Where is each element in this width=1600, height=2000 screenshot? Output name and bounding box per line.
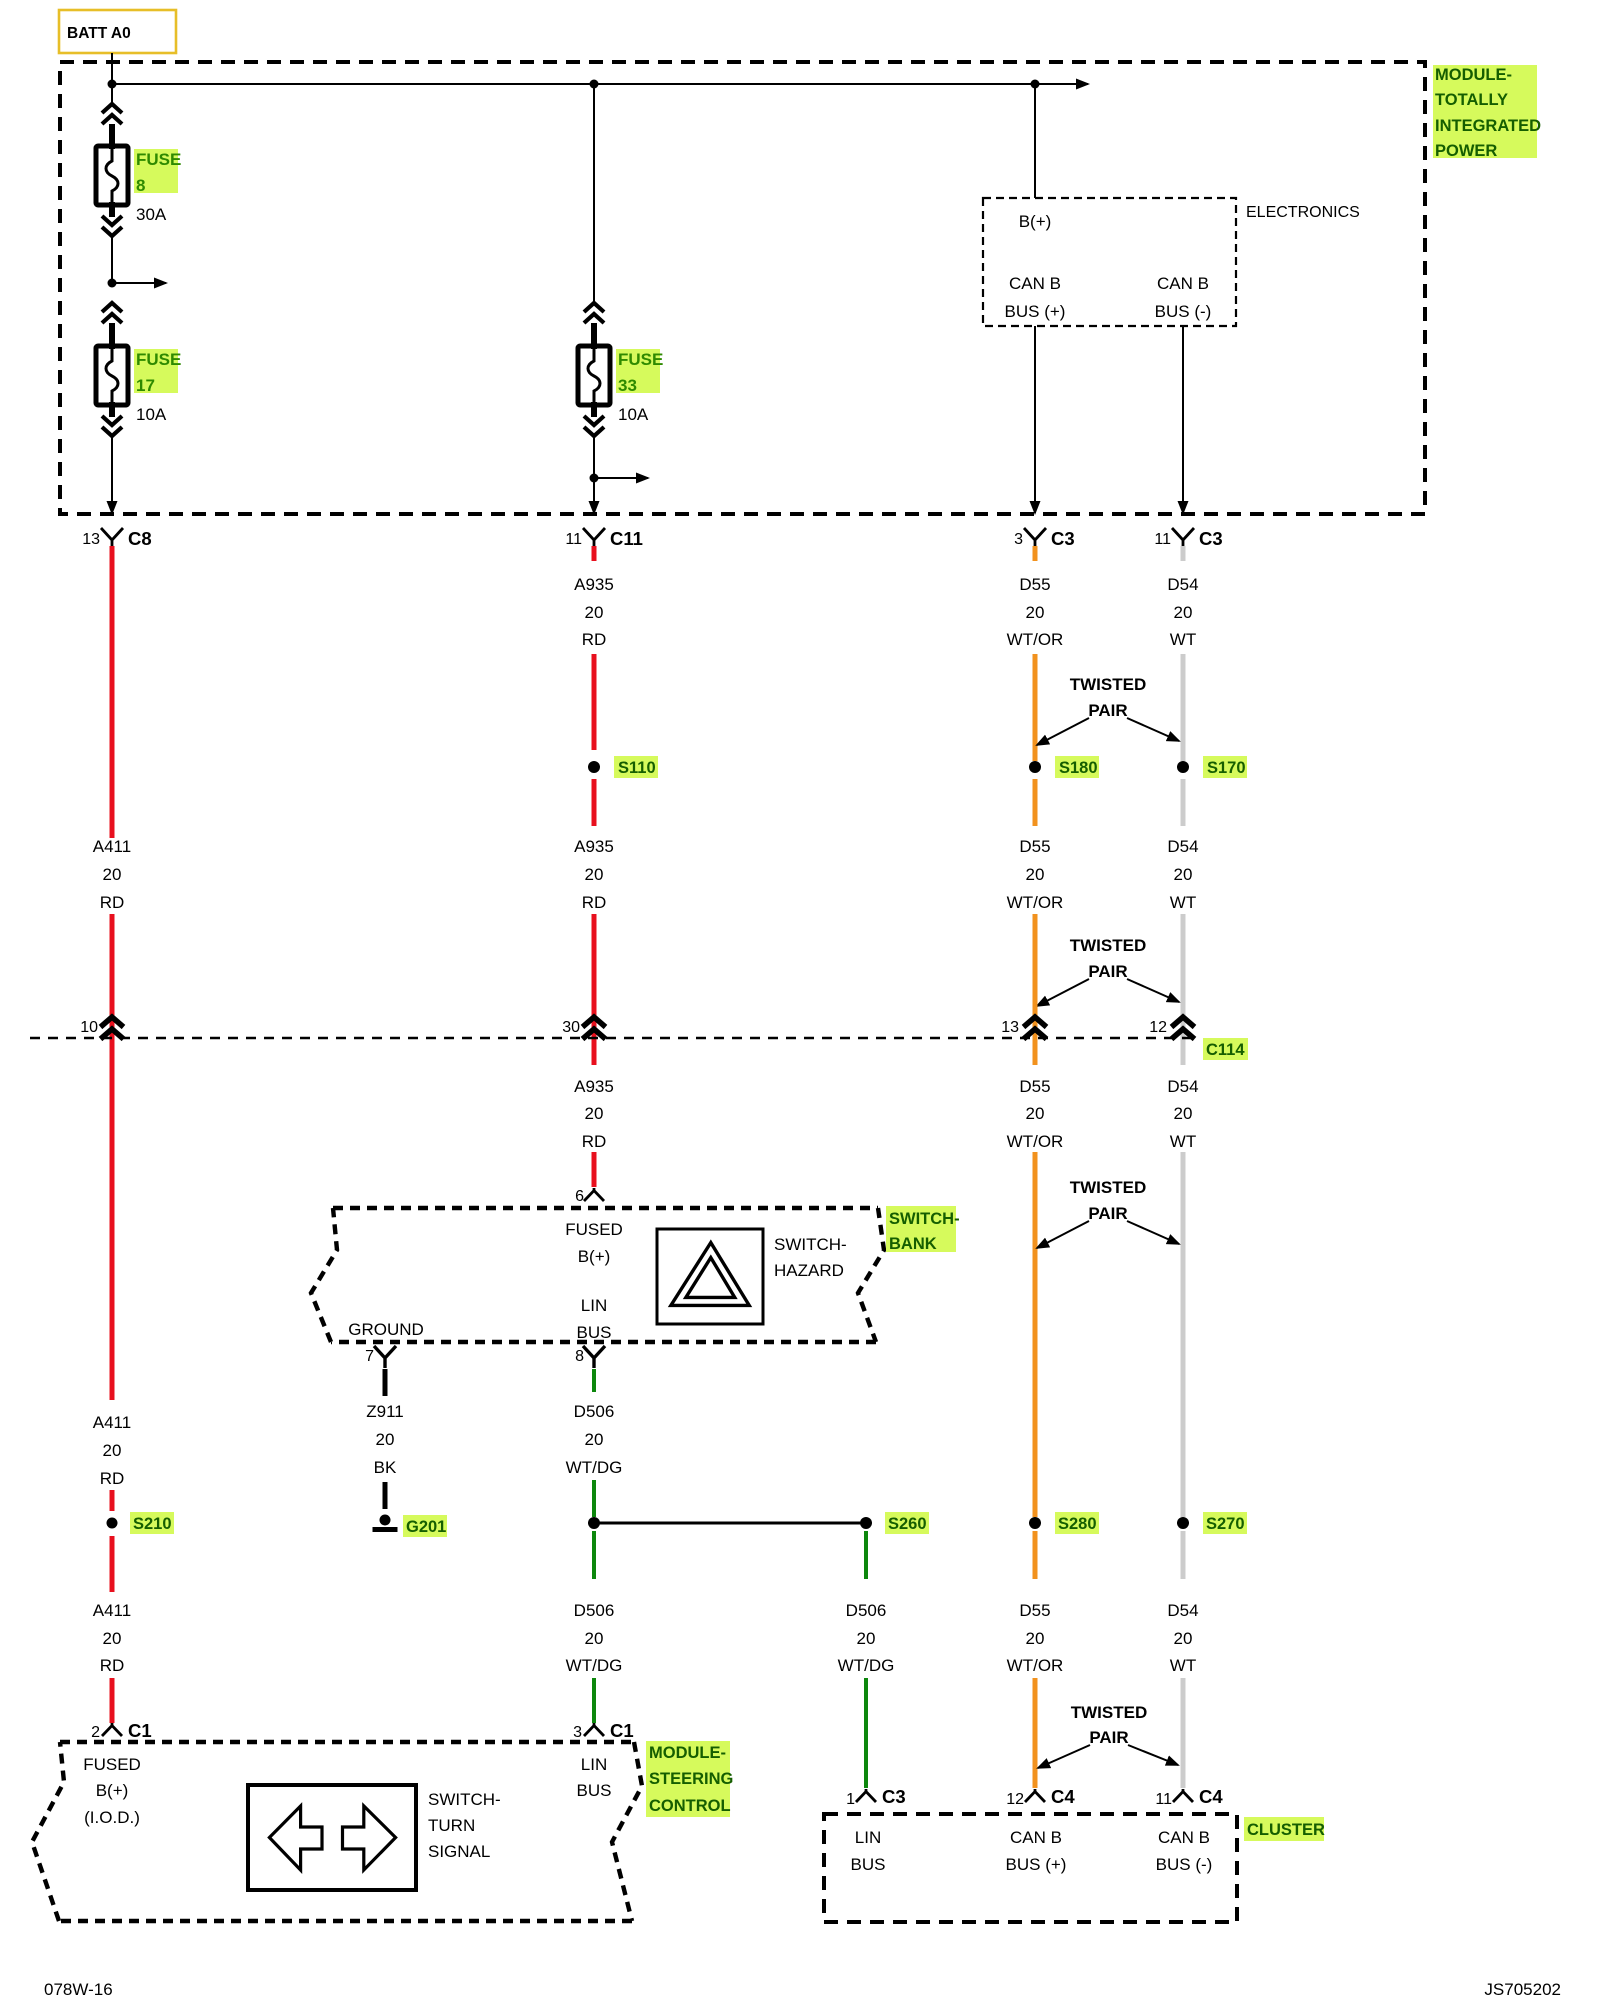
svg-text:C11: C11: [610, 528, 643, 549]
svg-text:13: 13: [82, 531, 100, 548]
svg-text:2: 2: [91, 1724, 100, 1741]
svg-text:D506: D506: [846, 1601, 887, 1620]
svg-text:WT/OR: WT/OR: [1007, 893, 1064, 912]
svg-text:TURN: TURN: [428, 1816, 475, 1835]
svg-text:PAIR: PAIR: [1089, 1728, 1128, 1747]
svg-text:A935: A935: [574, 1077, 614, 1096]
svg-text:D54: D54: [1167, 575, 1198, 594]
svg-text:TWISTED: TWISTED: [1070, 1178, 1147, 1197]
svg-text:CLUSTER: CLUSTER: [1247, 1821, 1325, 1839]
svg-text:D54: D54: [1167, 1601, 1198, 1620]
svg-text:BUS (-): BUS (-): [1155, 302, 1212, 321]
svg-text:C114: C114: [1206, 1041, 1245, 1059]
svg-text:33: 33: [618, 376, 637, 395]
svg-text:WT: WT: [1170, 893, 1196, 912]
svg-text:WT/DG: WT/DG: [838, 1656, 895, 1675]
svg-text:FUSE: FUSE: [618, 350, 663, 369]
svg-text:WT: WT: [1170, 630, 1196, 649]
svg-text:WT/DG: WT/DG: [566, 1656, 623, 1675]
svg-text:10A: 10A: [618, 405, 649, 424]
svg-text:BUS: BUS: [851, 1855, 886, 1874]
svg-text:8: 8: [136, 176, 145, 195]
svg-text:RD: RD: [582, 630, 607, 649]
svg-text:CAN B: CAN B: [1010, 1828, 1062, 1847]
svg-text:20: 20: [103, 865, 122, 884]
svg-text:GROUND: GROUND: [348, 1320, 424, 1339]
svg-text:A411: A411: [93, 1413, 131, 1432]
svg-text:LIN: LIN: [581, 1296, 607, 1315]
svg-text:WT: WT: [1170, 1132, 1196, 1151]
svg-text:C4: C4: [1051, 1786, 1075, 1807]
svg-text:20: 20: [1026, 1629, 1045, 1648]
svg-text:11: 11: [1155, 1791, 1172, 1808]
svg-text:10: 10: [80, 1019, 98, 1036]
svg-text:C8: C8: [128, 528, 152, 549]
svg-text:B(+): B(+): [96, 1781, 129, 1800]
svg-text:30A: 30A: [136, 205, 167, 224]
svg-text:BUS: BUS: [577, 1323, 612, 1342]
svg-text:BUS: BUS: [577, 1781, 612, 1800]
svg-text:1: 1: [846, 1791, 855, 1808]
svg-text:WT/DG: WT/DG: [566, 1458, 623, 1477]
svg-text:B(+): B(+): [578, 1247, 611, 1266]
svg-text:12: 12: [1149, 1019, 1167, 1036]
svg-text:HAZARD: HAZARD: [774, 1261, 844, 1280]
svg-text:8: 8: [575, 1348, 584, 1365]
svg-text:PAIR: PAIR: [1088, 962, 1127, 981]
svg-text:FUSE: FUSE: [136, 150, 181, 169]
svg-text:LIN: LIN: [855, 1828, 881, 1847]
svg-text:C4: C4: [1199, 1786, 1223, 1807]
svg-text:RD: RD: [582, 893, 607, 912]
svg-text:20: 20: [585, 603, 604, 622]
svg-text:WT/OR: WT/OR: [1007, 630, 1064, 649]
svg-text:17: 17: [136, 376, 155, 395]
svg-text:S210: S210: [133, 1515, 172, 1533]
svg-text:20: 20: [1174, 1629, 1193, 1648]
svg-text:BATT A0: BATT A0: [67, 25, 131, 42]
svg-text:D506: D506: [574, 1402, 615, 1421]
svg-text:TWISTED: TWISTED: [1070, 675, 1147, 694]
svg-text:S270: S270: [1206, 1515, 1245, 1533]
svg-text:TOTALLY: TOTALLY: [1435, 91, 1508, 109]
svg-text:D54: D54: [1167, 1077, 1198, 1096]
svg-text:(I.O.D.): (I.O.D.): [84, 1808, 140, 1827]
svg-text:20: 20: [1174, 865, 1193, 884]
svg-text:S110: S110: [618, 759, 656, 777]
svg-text:ELECTRONICS: ELECTRONICS: [1246, 204, 1360, 221]
svg-text:S170: S170: [1207, 759, 1246, 777]
svg-text:20: 20: [1174, 603, 1193, 622]
svg-text:C3: C3: [882, 1786, 906, 1807]
svg-text:SWITCH-: SWITCH-: [428, 1790, 501, 1809]
svg-text:20: 20: [103, 1441, 122, 1460]
svg-text:SWITCH-: SWITCH-: [889, 1210, 960, 1228]
svg-text:WT/OR: WT/OR: [1007, 1656, 1064, 1675]
svg-text:BANK: BANK: [889, 1235, 937, 1253]
svg-text:11: 11: [565, 531, 582, 548]
svg-text:20: 20: [1174, 1104, 1193, 1123]
svg-text:S180: S180: [1059, 759, 1098, 777]
svg-text:20: 20: [585, 1430, 604, 1449]
svg-text:TWISTED: TWISTED: [1071, 1703, 1148, 1722]
svg-text:13: 13: [1001, 1019, 1019, 1036]
svg-text:D506: D506: [574, 1601, 615, 1620]
svg-text:S280: S280: [1058, 1515, 1097, 1533]
svg-text:20: 20: [1026, 1104, 1045, 1123]
svg-text:A935: A935: [574, 837, 614, 856]
svg-text:CAN B: CAN B: [1158, 1828, 1210, 1847]
svg-text:C3: C3: [1051, 528, 1075, 549]
svg-text:20: 20: [585, 865, 604, 884]
svg-text:20: 20: [376, 1430, 395, 1449]
svg-text:D55: D55: [1019, 1077, 1050, 1096]
svg-text:3: 3: [573, 1724, 582, 1741]
svg-text:7: 7: [365, 1348, 374, 1365]
svg-text:D55: D55: [1019, 1601, 1050, 1620]
svg-text:PAIR: PAIR: [1088, 1204, 1127, 1223]
svg-text:FUSED: FUSED: [83, 1755, 141, 1774]
svg-text:MODULE-: MODULE-: [649, 1744, 726, 1762]
svg-text:SIGNAL: SIGNAL: [428, 1842, 490, 1861]
svg-text:Z911: Z911: [366, 1402, 404, 1421]
svg-text:STEERING: STEERING: [649, 1770, 733, 1788]
svg-text:A411: A411: [93, 837, 131, 856]
svg-text:PAIR: PAIR: [1088, 701, 1127, 720]
svg-text:3: 3: [1014, 531, 1023, 548]
svg-text:WT: WT: [1170, 1656, 1196, 1675]
svg-text:D54: D54: [1167, 837, 1198, 856]
svg-text:BK: BK: [374, 1458, 397, 1477]
svg-text:11: 11: [1154, 531, 1171, 548]
svg-text:WT/OR: WT/OR: [1007, 1132, 1064, 1151]
svg-text:20: 20: [1026, 603, 1045, 622]
svg-text:10A: 10A: [136, 405, 167, 424]
svg-text:D55: D55: [1019, 837, 1050, 856]
svg-text:30: 30: [562, 1019, 580, 1036]
svg-text:078W-16: 078W-16: [44, 1980, 113, 1999]
svg-text:FUSE: FUSE: [136, 350, 181, 369]
svg-text:G201: G201: [406, 1518, 446, 1536]
svg-text:A411: A411: [93, 1601, 131, 1620]
svg-text:20: 20: [585, 1629, 604, 1648]
svg-text:20: 20: [1026, 865, 1045, 884]
svg-text:FUSED: FUSED: [565, 1220, 623, 1239]
svg-text:CAN B: CAN B: [1157, 274, 1209, 293]
svg-text:D55: D55: [1019, 575, 1050, 594]
svg-text:C1: C1: [128, 1720, 152, 1741]
svg-text:RD: RD: [100, 1656, 125, 1675]
svg-text:20: 20: [857, 1629, 876, 1648]
svg-text:C3: C3: [1199, 528, 1223, 549]
svg-text:20: 20: [585, 1104, 604, 1123]
svg-text:BUS (+): BUS (+): [1006, 1855, 1067, 1874]
svg-text:LIN: LIN: [581, 1755, 607, 1774]
svg-text:RD: RD: [100, 1469, 125, 1488]
svg-text:SWITCH-: SWITCH-: [774, 1235, 847, 1254]
svg-text:S260: S260: [888, 1515, 927, 1533]
svg-text:BUS (+): BUS (+): [1005, 302, 1066, 321]
svg-text:RD: RD: [100, 893, 125, 912]
svg-text:6: 6: [575, 1188, 584, 1205]
svg-text:BUS (-): BUS (-): [1156, 1855, 1213, 1874]
svg-text:CAN B: CAN B: [1009, 274, 1061, 293]
svg-text:A935: A935: [574, 575, 614, 594]
svg-text:12: 12: [1006, 1791, 1024, 1808]
svg-text:B(+): B(+): [1019, 212, 1052, 231]
svg-text:MODULE-: MODULE-: [1435, 66, 1512, 84]
svg-text:20: 20: [103, 1629, 122, 1648]
svg-text:RD: RD: [582, 1132, 607, 1151]
svg-text:C1: C1: [610, 1720, 634, 1741]
svg-text:POWER: POWER: [1435, 142, 1497, 160]
svg-text:CONTROL: CONTROL: [649, 1797, 731, 1815]
svg-text:INTEGRATED: INTEGRATED: [1435, 117, 1541, 135]
svg-text:JS705202: JS705202: [1484, 1980, 1561, 1999]
svg-text:TWISTED: TWISTED: [1070, 936, 1147, 955]
